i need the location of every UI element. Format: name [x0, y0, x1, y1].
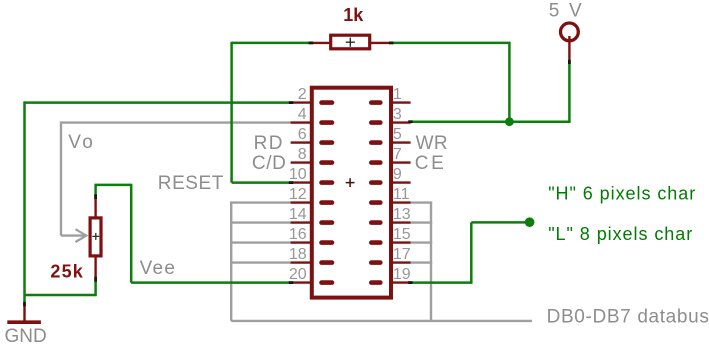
U1 pin 13	[371, 206, 410, 223]
U1 pin 4	[291, 106, 332, 123]
svg-text:CE: CE	[415, 153, 447, 174]
U1 pin 17	[371, 246, 410, 263]
wire DB bus: stub to pin 13	[411, 221, 433, 223]
junction mark pin 20	[289, 281, 293, 284]
U1 pin 10	[289, 166, 332, 183]
resistor R1 origin cross	[346, 38, 355, 47]
svg-text:7: 7	[393, 146, 402, 163]
svg-text:3: 3	[393, 106, 402, 123]
U1 pin 8	[291, 146, 332, 163]
svg-text:18: 18	[289, 246, 307, 263]
U1 pin 11	[371, 186, 410, 203]
wire GND net: left vertical	[23, 101, 26, 302]
junction mark pin 3	[408, 120, 412, 123]
svg-text:15: 15	[393, 226, 411, 243]
wire Vo net: horizontal from pin 4 left	[61, 121, 291, 123]
svg-text:5: 5	[393, 126, 402, 143]
svg-text:"L" 8 pixels char: "L" 8 pixels char	[548, 224, 693, 244]
svg-text:10: 10	[289, 166, 307, 183]
wire DB bus: stub to pin 14	[230, 221, 291, 223]
IC U1 origin cross	[346, 178, 355, 187]
supply symbol 5V	[561, 23, 579, 62]
wire Vee net: horizontal top	[94, 184, 131, 187]
svg-text:14: 14	[289, 206, 307, 223]
junction mark 5V pin	[568, 60, 571, 64]
junction mark pin 10	[289, 181, 293, 184]
U1 pin 1	[371, 86, 410, 103]
wire Vee net: vertical above pot	[94, 185, 97, 197]
svg-text:DB0-DB7 databus: DB0-DB7 databus	[547, 306, 709, 327]
wire DB bus: stub to pin 16	[230, 241, 291, 243]
junction mark GND pin	[23, 302, 26, 306]
wire RESET net: horizontal to resistor R1	[232, 42, 311, 45]
svg-text:Vee: Vee	[140, 258, 177, 279]
wire GND net: horizontal to pin 2	[25, 101, 292, 104]
U1 pin 14	[289, 206, 332, 223]
U1 pin 3	[371, 106, 410, 123]
wire Vo net: horizontal to pot wiper	[61, 234, 85, 236]
svg-text:2: 2	[298, 86, 307, 103]
junction mark resistor R1 right	[389, 42, 393, 45]
svg-text:WR: WR	[416, 133, 448, 154]
junction mark pot bottom	[94, 277, 97, 282]
wire 5V net: horizontal to pin 3	[411, 120, 571, 123]
svg-text:C/D: C/D	[252, 153, 287, 174]
svg-text:17: 17	[393, 246, 411, 263]
junction mark pin 2	[289, 101, 293, 104]
wire DB bus: left vertical	[230, 203, 232, 321]
svg-text:"H" 6 pixels char: "H" 6 pixels char	[548, 184, 696, 204]
svg-text:RESET: RESET	[158, 173, 224, 194]
resistor R1 body	[311, 35, 391, 49]
svg-text:11: 11	[393, 186, 410, 203]
wire 5V net: vertical branch to resistor	[508, 43, 511, 122]
U1 pin 19	[371, 266, 410, 283]
wire DB bus: stub to pin 17	[411, 261, 433, 263]
wire HL net: horizontal from pin 19	[409, 281, 472, 284]
svg-text:1k: 1k	[343, 5, 364, 25]
svg-text:12: 12	[289, 186, 307, 203]
wire DB bus: bottom rail	[231, 320, 532, 322]
wire GND net: horizontal to pot bottom	[25, 294, 96, 297]
junction mark pin 19	[408, 281, 412, 284]
IC U1 body	[312, 88, 391, 298]
wire DB bus: stub to pin 18	[230, 261, 291, 263]
junction mark pot top	[94, 194, 97, 199]
U1 pin 12	[289, 186, 332, 203]
wire Vo net: vertical at x=61	[60, 121, 62, 235]
U1 pin 7	[371, 146, 410, 163]
wire RESET net: horizontal to pin 10	[232, 181, 291, 184]
wire HL net: horizontal to end dot	[471, 221, 529, 224]
wire DB bus: stub to pin 11	[411, 201, 433, 203]
wire DB bus: right vertical	[430, 203, 432, 321]
svg-text:25k: 25k	[50, 262, 84, 282]
wire HL net: vertical at x=471	[470, 222, 473, 283]
svg-text:19: 19	[393, 266, 411, 283]
svg-text:1: 1	[393, 86, 402, 103]
U1 pin 16	[289, 226, 332, 243]
U1 pin 15	[371, 226, 410, 243]
svg-text:20: 20	[289, 266, 307, 283]
U1 pin 20	[289, 266, 332, 283]
wire Vee net: vertical at x=131	[130, 184, 133, 283]
potentiometer R2 origin cross	[92, 233, 99, 240]
svg-text:13: 13	[393, 206, 411, 223]
wire DB bus: stub to pin 15	[411, 241, 433, 243]
U1 pin 6	[291, 126, 332, 143]
node HL net end dot	[525, 217, 535, 227]
wire GND net: pot bottom vertical	[94, 281, 97, 296]
svg-text:5 V: 5 V	[549, 0, 584, 21]
svg-text:Vo: Vo	[68, 132, 95, 153]
ground symbol GND	[7, 306, 41, 323]
svg-text:16: 16	[289, 226, 307, 243]
svg-text:8: 8	[298, 146, 307, 163]
wire DB bus: stub to pin 12	[230, 201, 291, 203]
Vo wiper arrowhead	[76, 229, 87, 242]
svg-text:RD: RD	[254, 133, 284, 154]
svg-text:GND: GND	[5, 326, 47, 347]
U1 pin 5	[371, 126, 410, 143]
wire Vee net: horizontal to pin 20	[131, 281, 291, 284]
svg-text:4: 4	[298, 106, 307, 123]
potentiometer R2 body 25k	[90, 196, 101, 278]
junction dot 5V net	[505, 117, 514, 126]
U1 pin 9	[371, 166, 410, 183]
svg-text:9: 9	[393, 166, 402, 183]
U1 pin 2	[291, 86, 332, 103]
wire 5V net: vertical below 5V symbol	[568, 62, 571, 122]
junction mark resistor R1 left	[309, 42, 314, 45]
wire 5V net: horizontal from resistor R1	[392, 42, 511, 45]
svg-text:6: 6	[298, 126, 307, 143]
U1 pin 18	[289, 246, 332, 263]
wire RESET net: vertical at x=231.6	[230, 42, 233, 183]
